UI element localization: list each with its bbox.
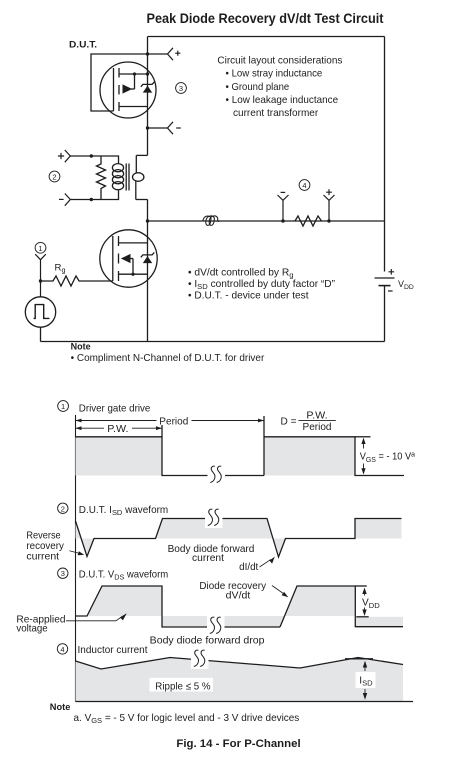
wire secondary top jog bbox=[136, 154, 147, 156]
svg-text:D.U.T. VDS waveform: D.U.T. VDS waveform bbox=[79, 570, 168, 582]
svg-text:Circuit layout considerations: Circuit layout considerations bbox=[217, 56, 342, 67]
svg-text:dI/dt: dI/dt bbox=[239, 562, 258, 573]
label ripple bbox=[150, 678, 214, 692]
waveform 1 trace bbox=[76, 416, 405, 476]
wire main vertical lower bbox=[147, 200, 149, 342]
transistor Q2 (driver N-channel MOSFET) bbox=[100, 230, 157, 287]
break symbol w3 bbox=[207, 616, 225, 636]
svg-text:Peak Diode Recovery dV/dt Test: Peak Diode Recovery dV/dt Test Circuit bbox=[147, 11, 384, 27]
probe node 1 bbox=[35, 242, 46, 253]
channel dashed bar bbox=[118, 236, 120, 281]
body diode D1 (zener style) bbox=[143, 86, 152, 93]
svg-text:P.W.: P.W. bbox=[107, 424, 128, 435]
waveform 3 trace bbox=[76, 586, 404, 627]
probe - (inductor) bbox=[278, 195, 289, 221]
axis vertical bbox=[75, 415, 77, 702]
substrate lead with arrow bbox=[121, 254, 131, 263]
battery VDD bbox=[375, 278, 395, 286]
waveform 3 gray fills bbox=[87, 586, 162, 616]
wire secondary bottom jog bbox=[136, 199, 148, 201]
gate bar bbox=[112, 236, 114, 281]
svg-text:3: 3 bbox=[179, 84, 183, 93]
wire primary top bbox=[70, 156, 119, 164]
wire gate loop DUT bbox=[91, 54, 148, 111]
node 4 waveform label bbox=[57, 644, 67, 654]
drain lead bbox=[119, 242, 148, 244]
dimension VGS arrow bbox=[361, 438, 365, 475]
waveform 4 trace bbox=[76, 658, 404, 670]
svg-text:dV/dt: dV/dt bbox=[226, 591, 251, 602]
secondary winding bbox=[135, 155, 137, 173]
body diode D2 (zener style) bbox=[143, 256, 152, 263]
svg-text:Fig. 14 - For P-Channel: Fig. 14 - For P-Channel bbox=[176, 738, 300, 750]
svg-text:• Low stray inductance: • Low stray inductance bbox=[226, 69, 323, 80]
svg-text:Body diode forward drop: Body diode forward drop bbox=[150, 635, 265, 646]
svg-text:1: 1 bbox=[61, 402, 65, 411]
svg-text:2: 2 bbox=[52, 173, 56, 182]
transistor Q1 (D.U.T. P-channel MOSFET) bbox=[100, 62, 156, 118]
svg-text:Reverse: Reverse bbox=[26, 531, 61, 542]
wire right rail lower bbox=[384, 286, 386, 342]
node 2 waveform label bbox=[58, 503, 68, 513]
svg-text:Period: Period bbox=[303, 422, 332, 433]
svg-text:• D.U.T. - device under test: • D.U.T. - device under test bbox=[188, 290, 309, 301]
svg-text:4: 4 bbox=[302, 181, 306, 190]
resistor R2 bbox=[295, 216, 322, 226]
svg-text:3: 3 bbox=[61, 569, 65, 578]
channel dashed bar bbox=[118, 68, 120, 111]
svg-text:Driver gate drive: Driver gate drive bbox=[79, 403, 151, 414]
svg-text:D =: D = bbox=[281, 417, 297, 428]
source lead bbox=[119, 273, 148, 275]
dimension ISD arrow bbox=[363, 661, 367, 700]
waveform 1: gray pulses bbox=[76, 437, 163, 476]
transformer T1 bbox=[70, 155, 148, 199]
svg-text:recovery: recovery bbox=[26, 541, 64, 552]
pulse generator V1 bbox=[25, 297, 55, 342]
core bbox=[125, 164, 127, 191]
svg-text:4: 4 bbox=[60, 645, 64, 654]
node 1 waveform label bbox=[58, 401, 69, 412]
resistor R1 (transformer damping) bbox=[97, 156, 106, 200]
wire middle rail bbox=[148, 220, 385, 222]
node 2 label bbox=[49, 171, 60, 182]
break symbol w2 bbox=[205, 508, 223, 528]
svg-text:Inductor current: Inductor current bbox=[78, 645, 148, 656]
svg-text:D.U.T. ISD waveform: D.U.T. ISD waveform bbox=[79, 505, 168, 517]
waveform 2 trace bbox=[76, 519, 402, 558]
primary winding bbox=[112, 164, 123, 172]
svg-text:• Low leakage inductance: • Low leakage inductance bbox=[226, 95, 339, 106]
wire top rail bbox=[148, 36, 385, 38]
source lead bbox=[119, 106, 148, 108]
wire driver gate branch bbox=[40, 260, 42, 297]
drain lead bbox=[119, 73, 148, 75]
svg-text:• Compliment N-Channel of D.U.: • Compliment N-Channel of D.U.T. for dri… bbox=[71, 353, 265, 364]
svg-text:voltage: voltage bbox=[16, 623, 48, 634]
wire primary bottom bbox=[70, 191, 119, 200]
dimension VDD arrow bbox=[362, 588, 366, 617]
dimension Period bbox=[76, 419, 265, 423]
node: junction dots transformer bbox=[90, 154, 93, 157]
svg-text:P.W.: P.W. bbox=[306, 411, 327, 422]
inductor L1 bbox=[203, 216, 220, 226]
svg-text:a. VGS = - 5 V for logic level: a. VGS = - 5 V for logic level and - 3 V… bbox=[74, 713, 300, 725]
svg-text:Period: Period bbox=[159, 416, 188, 427]
wire main vertical DUT branch bbox=[147, 37, 149, 156]
probe - (DUT source) bbox=[148, 122, 174, 134]
node 3 label bbox=[176, 83, 187, 94]
wire waveform 4 baseline bbox=[76, 701, 414, 703]
gate bar bbox=[113, 68, 115, 111]
waveform 2 gray fills bbox=[76, 521, 95, 557]
waveform 4 gray fill bbox=[76, 658, 404, 702]
node: junction dots DUT bbox=[146, 52, 149, 55]
svg-text:2: 2 bbox=[61, 504, 65, 513]
break symbol w1 bbox=[208, 465, 226, 485]
wire to bottom rail bbox=[40, 327, 42, 341]
svg-text:Note: Note bbox=[50, 702, 71, 713]
svg-text:current: current bbox=[26, 552, 59, 563]
svg-text:1: 1 bbox=[38, 244, 42, 253]
probe + (inductor) bbox=[324, 195, 335, 221]
svg-text:Ripple ≤ 5 %: Ripple ≤ 5 % bbox=[155, 681, 210, 692]
svg-text:• Ground plane: • Ground plane bbox=[226, 82, 290, 93]
break symbol w4 bbox=[191, 649, 209, 669]
svg-text:current: current bbox=[192, 553, 224, 564]
wire bottom rail bbox=[41, 341, 385, 343]
svg-text:current transformer: current transformer bbox=[233, 108, 319, 119]
node 4 label bbox=[299, 180, 310, 191]
dimension P.W. bbox=[76, 426, 163, 430]
node 3 waveform label bbox=[58, 568, 68, 578]
svg-text:• dV/dt controlled by Rg: • dV/dt controlled by Rg bbox=[188, 268, 294, 280]
probe - (transformer) bbox=[65, 194, 71, 206]
substrate lead with arrow bbox=[131, 88, 135, 90]
svg-text:• ISD controlled by duty facto: • ISD controlled by duty factor “D” bbox=[188, 279, 335, 291]
probe + (DUT drain) bbox=[148, 48, 174, 60]
svg-text:D.U.T.: D.U.T. bbox=[69, 40, 97, 50]
wire right rail upper bbox=[384, 37, 386, 272]
svg-text:Note: Note bbox=[71, 342, 91, 353]
probe + (transformer) bbox=[65, 150, 71, 162]
